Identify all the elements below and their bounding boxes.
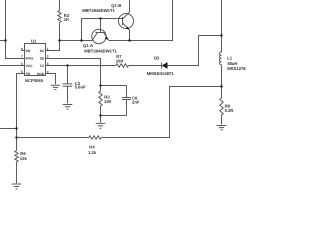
wire Q1-A base drop bbox=[100, 19, 102, 33]
diode D5 bar bbox=[161, 62, 163, 68]
svg-text:TC: TC bbox=[40, 64, 45, 68]
wire tick left edge y128 bbox=[0, 128, 17, 130]
svg-text:12k: 12k bbox=[20, 156, 28, 161]
node dot Q1-A base bbox=[99, 17, 101, 19]
ground C2 bbox=[63, 105, 73, 110]
wire tick left edge y40 bbox=[0, 40, 6, 42]
svg-text:8: 8 bbox=[21, 47, 23, 51]
svg-text:2nF: 2nF bbox=[132, 99, 140, 104]
node dot R3 bottom bbox=[99, 114, 101, 116]
wire R7 to D5 bbox=[129, 65, 162, 67]
wire Q1-B emitter down bbox=[129, 30, 131, 41]
ground R6 bbox=[12, 184, 22, 189]
svg-text:7: 7 bbox=[21, 54, 23, 58]
wire rail B top bbox=[59, 0, 61, 10]
svg-text:MBT3946DW1T1: MBT3946DW1T1 bbox=[82, 8, 115, 13]
svg-text:U1: U1 bbox=[31, 39, 37, 44]
svg-text:5.6nF: 5.6nF bbox=[75, 85, 86, 90]
resistor R3 bbox=[99, 91, 102, 106]
wire R3 bottom bbox=[100, 106, 102, 123]
wire Q1-B collector up bbox=[129, 0, 131, 12]
transistor Q1-B bbox=[119, 12, 134, 30]
capacitor C2 bbox=[63, 84, 73, 86]
svg-text:6: 6 bbox=[21, 62, 23, 66]
wire C2 riser bbox=[67, 66, 69, 84]
svg-text:20R: 20R bbox=[116, 59, 124, 64]
svg-text:4: 4 bbox=[47, 70, 49, 74]
node dot Q1-B emitter bbox=[128, 39, 130, 41]
wire C2 bottom bbox=[67, 86, 69, 103]
wire R4 to rail E bbox=[101, 87, 221, 138]
svg-text:5: 5 bbox=[21, 70, 23, 74]
wire R8 bottom bbox=[221, 115, 223, 125]
node dot base riser bbox=[80, 39, 82, 41]
wire FB pin 5 down bbox=[17, 74, 25, 151]
svg-text:IPKS: IPKS bbox=[26, 57, 34, 61]
node dot R3 top bbox=[99, 84, 101, 86]
wire C6 bottom bbox=[126, 100, 128, 116]
resistor R6 bbox=[15, 151, 18, 162]
svg-text:1: 1 bbox=[47, 47, 49, 51]
resistor R8 bbox=[220, 98, 223, 115]
wire SC pin 1 bbox=[46, 41, 60, 51]
wire bus y40 right bbox=[109, 0, 173, 41]
wire bus y40 left bbox=[60, 40, 93, 42]
svg-text:0.2R: 0.2R bbox=[225, 108, 234, 113]
IC U1 NCP3065 body bbox=[25, 44, 46, 76]
wire Q1-A base riser bbox=[81, 19, 83, 41]
svg-text:NCP3065: NCP3065 bbox=[25, 78, 44, 83]
wire GND pin 4 bbox=[46, 74, 56, 85]
svg-text:1.2k: 1.2k bbox=[88, 150, 97, 155]
wire EN pin 8 stub bbox=[21, 50, 24, 52]
ground R8 bbox=[217, 126, 227, 130]
resistor R7 bbox=[116, 64, 129, 67]
svg-text:R4: R4 bbox=[89, 145, 95, 150]
capacitor C6 bbox=[122, 98, 131, 100]
svg-text:MBT3946DW1T1: MBT3946DW1T1 bbox=[84, 49, 117, 54]
svg-text:3: 3 bbox=[47, 62, 49, 66]
wire rail E middle bbox=[221, 65, 223, 98]
svg-text:Q1-B: Q1-B bbox=[111, 3, 121, 8]
resistor R2 bbox=[58, 10, 61, 22]
wire R6 bottom bbox=[16, 162, 18, 183]
svg-text:SC: SC bbox=[40, 49, 45, 53]
node dot FB tick bbox=[15, 127, 17, 129]
wire rail E top bbox=[221, 0, 223, 52]
node dot rail E y86 bbox=[220, 85, 222, 87]
transistor Q1-A bbox=[92, 29, 109, 43]
svg-text:200: 200 bbox=[104, 99, 112, 104]
wire R3 top bbox=[100, 86, 102, 92]
svg-text:D5: D5 bbox=[154, 55, 160, 60]
svg-text:1K: 1K bbox=[64, 17, 69, 22]
ground R3 bbox=[96, 123, 106, 128]
wire Q1-B base bbox=[82, 18, 123, 20]
wire D5 to corner bbox=[168, 36, 222, 66]
svg-text:GND: GND bbox=[37, 72, 45, 76]
svg-text:MSS1278: MSS1278 bbox=[227, 66, 246, 71]
diode D5 triangle bbox=[162, 62, 168, 69]
node dot FB R4 bbox=[15, 136, 17, 138]
wire R2 bottom bbox=[59, 23, 61, 41]
wire C6 riser bbox=[126, 86, 128, 98]
pin stubs U1 bbox=[19, 51, 51, 74]
wire SE pin 2 bbox=[46, 59, 101, 86]
wire TC pin 3 bbox=[46, 65, 116, 67]
svg-text:EN: EN bbox=[26, 49, 31, 53]
ground U1 bbox=[51, 85, 61, 89]
node dot rail A y40 bbox=[4, 39, 6, 41]
node dot rail E y35 bbox=[220, 34, 222, 36]
svg-text:MMSD4148T1: MMSD4148T1 bbox=[147, 71, 175, 76]
wire rail A left vertical bbox=[6, 0, 25, 59]
svg-text:L1: L1 bbox=[227, 55, 233, 60]
svg-text:SE: SE bbox=[40, 57, 45, 61]
svg-text:VCC: VCC bbox=[26, 64, 34, 68]
node dot R2 SC junction bbox=[58, 39, 60, 41]
svg-text:2: 2 bbox=[47, 54, 49, 58]
wire node bus top bbox=[101, 85, 127, 87]
wire VCC pin 6 from left edge bbox=[0, 65, 25, 67]
node dot C2 tap bbox=[66, 64, 68, 66]
svg-text:Q1-A: Q1-A bbox=[83, 43, 93, 48]
svg-text:FB: FB bbox=[26, 72, 31, 76]
wire node bus bottom bbox=[101, 115, 127, 117]
resistor R4 bbox=[89, 136, 101, 139]
inductor L1 bbox=[219, 52, 221, 65]
wire FB to R4 bbox=[17, 137, 89, 139]
